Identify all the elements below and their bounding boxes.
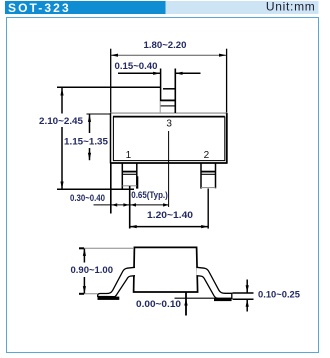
svg-text:SOT-323: SOT-323 — [8, 1, 71, 15]
dimension 0.90~1.00 top extension line — [79, 247, 134, 249]
svg-text:0.15~0.40: 0.15~0.40 — [115, 61, 158, 71]
dimension 2.10~2.45 bottom extension line — [57, 188, 134, 190]
package body inner line — [113, 117, 224, 161]
svg-text:0.00~0.10: 0.00~0.10 — [136, 299, 181, 309]
center axis line — [168, 131, 170, 207]
up arrow to seating plane — [184, 299, 187, 306]
svg-text:0.10~0.25: 0.10~0.25 — [258, 289, 300, 299]
pin 3 lead (top) — [160, 69, 162, 102]
dimension 0.90~1.00 bottom extension line — [79, 293, 98, 295]
right foot contact bar — [214, 298, 232, 301]
package body outer (top view) — [110, 113, 227, 164]
svg-text:0.65(Typ.): 0.65(Typ.) — [131, 190, 168, 200]
seating plane line — [175, 297, 233, 299]
extension line pin2 center — [207, 189, 209, 229]
pin 2 lead (bottom right) — [200, 163, 202, 189]
svg-text:1.80~2.20: 1.80~2.20 — [144, 40, 187, 50]
dimension 0.10~0.25 line — [246, 280, 248, 293]
svg-text:Unit:mm: Unit:mm — [266, 0, 316, 13]
dimension 0.30 / 0.65 shared line — [94, 204, 169, 206]
dimension 1.15~1.35 line — [89, 114, 91, 133]
svg-text:0.90~1.00: 0.90~1.00 — [71, 265, 114, 275]
dimension 0.15~0.40 line left tail — [118, 72, 161, 74]
dimension 0.10~0.25 extension lines — [233, 292, 254, 294]
header dark blue band — [5, 1, 166, 14]
extension line body left edge down — [110, 163, 112, 214]
dimension 1.80~2.20 line — [111, 54, 227, 56]
svg-text:2.10~2.45: 2.10~2.45 — [39, 116, 83, 126]
dimension 2.10~2.45 top extension line — [57, 86, 161, 88]
dimension 0.15~0.40 line right tail — [175, 72, 200, 74]
extension line body right — [226, 49, 228, 114]
svg-text:1.20~1.40: 1.20~1.40 — [147, 210, 193, 220]
left lead (side view) — [98, 267, 135, 296]
dimension 1.15~1.35 top extension line — [87, 113, 111, 115]
package body (side view) — [134, 247, 198, 292]
dimension 0.90~1.00 line — [83, 249, 85, 263]
svg-text:2: 2 — [204, 150, 210, 161]
left foot contact bar — [98, 297, 120, 300]
dimension 2.10~2.45 line — [61, 88, 63, 114]
extension line body bottom — [185, 292, 187, 315]
right lead (side view) — [197, 267, 232, 298]
header light blue band — [166, 1, 319, 14]
svg-text:1: 1 — [126, 150, 132, 161]
extension line pin1 center — [129, 186, 131, 229]
extension line body left — [110, 49, 112, 114]
svg-text:1.15~1.35: 1.15~1.35 — [64, 136, 108, 146]
svg-text:0.30~0.40: 0.30~0.40 — [70, 193, 105, 203]
pin 1 lead (bottom left) — [121, 163, 123, 190]
svg-text:3: 3 — [166, 118, 172, 129]
dimension 1.20~1.40 line — [130, 226, 209, 228]
